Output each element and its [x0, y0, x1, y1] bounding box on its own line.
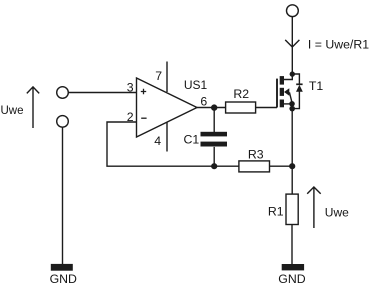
svg-text:3: 3 — [127, 80, 134, 94]
transistor T1 gate bar — [276, 79, 278, 108]
wire input minus to ground — [62, 127, 64, 264]
svg-text:Uwe: Uwe — [325, 205, 349, 219]
node source junction — [289, 101, 295, 107]
svg-text:6: 6 — [200, 94, 207, 108]
resistor R2 — [226, 102, 256, 113]
transistor T1 channel drain bar — [280, 76, 284, 85]
svg-text:2: 2 — [127, 110, 134, 124]
terminal input plus — [57, 87, 69, 99]
wire top terminal to drain — [291, 17, 293, 74]
transistor T1 body diode cathode bar — [296, 83, 302, 85]
terminal output top — [287, 5, 299, 17]
svg-text:R3: R3 — [248, 148, 264, 162]
svg-text:US1: US1 — [184, 78, 208, 92]
transistor T1 channel body bar — [280, 88, 284, 96]
pin 7 stub — [166, 62, 168, 93]
ground bar left — [51, 264, 73, 271]
svg-text:T1: T1 — [309, 79, 324, 93]
capacitor C1 top plate — [201, 132, 228, 137]
wire output node down to C1 — [213, 108, 215, 133]
terminal input minus — [57, 116, 69, 128]
wire R1 to ground — [291, 225, 293, 265]
svg-text:GND: GND — [278, 272, 305, 286]
resistor R1 — [286, 194, 298, 224]
transistor T1 channel source bar — [280, 100, 284, 108]
node R3 source junction — [289, 163, 295, 169]
pin 4 stub — [166, 122, 168, 151]
node feedback junction — [211, 163, 217, 169]
svg-text:I = Uwe/R1: I = Uwe/R1 — [308, 38, 369, 52]
transistor T1 body-source link — [289, 92, 292, 103]
wire R3 to source line — [270, 165, 293, 167]
transistor T1 drain lead — [284, 74, 293, 80]
transistor T1 body diode triangle — [296, 85, 303, 92]
wire op-amp output pin 6 — [197, 107, 226, 109]
arrow Uwe input direction — [27, 87, 39, 128]
node diode anode junction — [289, 106, 295, 112]
svg-text:4: 4 — [154, 134, 161, 148]
svg-text:R1: R1 — [268, 204, 284, 218]
svg-text:Uwe: Uwe — [1, 105, 24, 117]
transistor T1 body arrow — [284, 88, 289, 96]
transistor T1 body diode branch wires — [292, 74, 299, 109]
wire R2 to gate — [256, 107, 277, 109]
wire source line down to R1 — [291, 109, 293, 195]
node output junction — [211, 104, 217, 110]
arrow current I direction — [285, 40, 299, 47]
op-amp minus input symbol — [141, 117, 146, 119]
transistor T1 source lead — [284, 103, 292, 105]
svg-text:C1: C1 — [184, 133, 200, 147]
resistor R3 — [239, 161, 270, 172]
node drain junction — [290, 71, 295, 76]
svg-text:7: 7 — [155, 69, 162, 83]
op-amp plus input symbol — [141, 89, 146, 94]
op-amp US1 triangle — [137, 78, 198, 137]
svg-text:GND: GND — [50, 272, 77, 286]
ground bar right — [282, 264, 304, 270]
svg-text:R2: R2 — [233, 87, 249, 101]
wire pin 2 feedback — [107, 122, 239, 166]
wire input to pin 3 — [68, 92, 136, 94]
arrow Uwe across R1 — [307, 187, 321, 228]
capacitor C1 bottom plate — [201, 142, 228, 147]
wire C1 bottom to feedback node — [213, 147, 215, 166]
